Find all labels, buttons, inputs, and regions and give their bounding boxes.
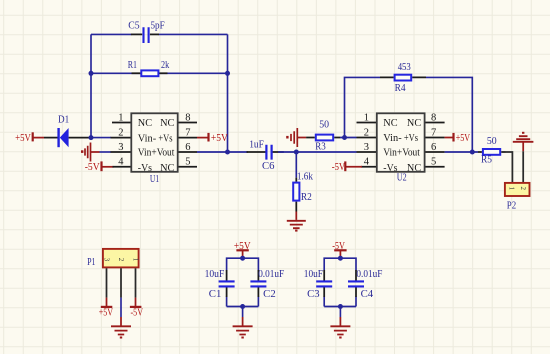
wire P2 pin2 — [522, 151, 524, 182]
svg-text:P1: P1 — [87, 257, 95, 268]
wire R4 right down to pin6 — [426, 77, 472, 152]
resistor R1 — [128, 60, 170, 76]
svg-text:5: 5 — [185, 156, 190, 167]
svg-text:5pF: 5pF — [151, 21, 165, 32]
svg-text:Vin-: Vin- — [383, 132, 402, 144]
svg-text:C6: C6 — [262, 161, 275, 172]
svg-text:C2: C2 — [263, 289, 276, 300]
power +5V under P1 — [99, 298, 114, 319]
svg-text:NC: NC — [160, 162, 174, 174]
svg-text:R1: R1 — [128, 60, 137, 71]
wire R3 to U2 pin2 — [340, 137, 357, 139]
svg-text:453: 453 — [398, 62, 411, 73]
svg-text:1: 1 — [131, 258, 139, 262]
ground at U1 pin3 — [81, 143, 100, 162]
node C3C4 top — [338, 256, 343, 261]
resistor R5 — [478, 136, 506, 165]
capacitor C2 — [250, 269, 284, 300]
op-amp U2 — [357, 113, 445, 184]
wire C3C4 top rail — [324, 258, 356, 306]
svg-text:C3: C3 — [307, 289, 320, 300]
svg-text:6: 6 — [185, 142, 190, 153]
wire P1 pin2 to ground — [120, 298, 122, 317]
resistor R3 — [306, 120, 340, 153]
node D1 / U1 pin2 — [89, 135, 94, 140]
svg-text:Vin+Vout: Vin+Vout — [138, 147, 175, 159]
svg-text:0.01uF: 0.01uF — [356, 269, 382, 280]
svg-text:Vin+Vout: Vin+Vout — [383, 147, 420, 159]
ground at R3 left — [286, 128, 306, 147]
svg-text:50: 50 — [487, 136, 497, 147]
wire U2 pin6 to R5 — [445, 151, 478, 153]
svg-text:NC: NC — [407, 162, 421, 174]
diode D1 — [44, 115, 91, 148]
svg-text:2k: 2k — [161, 60, 170, 71]
wire C1C2 ground stem — [242, 307, 244, 318]
capacitor C3 — [304, 269, 332, 300]
svg-text:4: 4 — [118, 156, 124, 167]
wire C3C4 ground stem — [339, 307, 341, 318]
op-amp U1 — [111, 113, 198, 185]
node C3C4 bottom — [338, 304, 343, 309]
node C1C2 top — [240, 256, 245, 261]
wire C3C4 bottom rail — [324, 306, 356, 308]
power -5V left — [85, 161, 114, 172]
node R1 right — [225, 71, 230, 76]
svg-text:1: 1 — [364, 113, 369, 124]
svg-text:50: 50 — [319, 120, 329, 131]
node R4 bottom — [342, 135, 347, 140]
svg-text:-Vs: -Vs — [383, 162, 397, 174]
svg-text:6: 6 — [431, 142, 436, 153]
wire C6 to U2 pin3 — [278, 151, 356, 153]
svg-text:2: 2 — [117, 258, 125, 262]
svg-text:-5V: -5V — [85, 162, 100, 173]
wire U1 pin6 to C6 — [197, 151, 248, 153]
svg-text:+5V: +5V — [15, 133, 31, 144]
wire left rail — [90, 34, 92, 137]
power +5V above C1C2 — [234, 241, 251, 258]
svg-text:+5V: +5V — [456, 133, 471, 144]
svg-text:1: 1 — [507, 187, 515, 191]
node R1 left — [89, 71, 94, 76]
ground below R2 — [287, 212, 306, 232]
capacitor C1 — [205, 269, 235, 300]
svg-text:U1: U1 — [150, 174, 159, 185]
node pin6/R4 rail — [470, 150, 475, 155]
svg-text:5: 5 — [431, 156, 436, 167]
svg-text:2: 2 — [519, 187, 527, 191]
svg-text:R3: R3 — [315, 142, 326, 153]
resistor R2 — [293, 172, 313, 212]
resistor R4 — [380, 62, 426, 94]
wire R2 branch — [295, 152, 297, 178]
power +5V at U2 pin7 — [445, 133, 471, 144]
svg-text:8: 8 — [431, 113, 436, 124]
capacitor C4 — [348, 269, 383, 300]
wire C1C2 top rail — [227, 258, 259, 306]
wire U1 pin3 — [100, 151, 112, 153]
svg-text:8: 8 — [185, 113, 190, 124]
svg-text:D1: D1 — [58, 115, 69, 126]
wire R5 to P2 pin1 — [506, 152, 513, 182]
svg-text:P2: P2 — [507, 200, 516, 211]
svg-text:3: 3 — [102, 258, 110, 262]
svg-text:1uF: 1uF — [249, 140, 264, 151]
svg-text:1: 1 — [118, 113, 123, 124]
power -5V at U2 pin4 — [332, 161, 362, 172]
svg-text:-5V: -5V — [131, 307, 144, 318]
svg-text:Vin-: Vin- — [138, 132, 157, 144]
wire R4 loop — [345, 77, 381, 137]
connector P1 — [87, 249, 139, 298]
connector P2 — [505, 183, 530, 212]
power -5V under P1 — [130, 298, 143, 319]
svg-text:C1: C1 — [209, 289, 222, 300]
svg-text:1.6k: 1.6k — [297, 172, 314, 183]
wire R1 feedback row — [91, 72, 228, 74]
svg-text:NC: NC — [160, 117, 174, 129]
svg-text:-Vs: -Vs — [138, 162, 152, 174]
svg-text:R4: R4 — [395, 83, 407, 94]
earth ground above P2 — [513, 132, 534, 152]
power -5V above C3C4 — [332, 241, 346, 258]
power +5V left — [15, 132, 44, 144]
svg-text:C4: C4 — [361, 289, 374, 300]
svg-text:U2: U2 — [397, 172, 407, 183]
svg-text:2: 2 — [364, 128, 369, 139]
svg-text:NC: NC — [383, 117, 397, 129]
capacitor C6 — [247, 140, 284, 172]
svg-text:R5: R5 — [481, 155, 492, 166]
svg-text:4: 4 — [364, 156, 370, 167]
svg-text:+Vs: +Vs — [158, 132, 172, 144]
ground under C3C4 — [330, 317, 350, 339]
svg-text:+Vs: +Vs — [404, 132, 418, 144]
capacitor C5 — [128, 21, 165, 43]
svg-text:7: 7 — [185, 128, 190, 139]
node R2 top — [294, 150, 299, 155]
svg-text:C5: C5 — [128, 21, 139, 32]
svg-text:2: 2 — [118, 128, 123, 139]
svg-text:7: 7 — [431, 128, 436, 139]
svg-text:R2: R2 — [301, 192, 312, 203]
power +5V at U1 pin7 — [197, 133, 228, 144]
svg-text:3: 3 — [118, 142, 123, 153]
svg-text:3: 3 — [364, 142, 369, 153]
svg-text:10uF: 10uF — [205, 269, 225, 280]
svg-text:10uF: 10uF — [304, 269, 323, 280]
ground under P1 — [111, 317, 131, 339]
wire right rail — [227, 34, 229, 152]
wire C1C2 bottom rail — [227, 306, 259, 308]
node C1C2 bottom — [240, 304, 245, 309]
svg-text:0.01uF: 0.01uF — [258, 269, 284, 280]
node pin6/right rail — [225, 150, 230, 155]
svg-text:+5V: +5V — [99, 307, 114, 318]
svg-text:+5V: +5V — [211, 133, 228, 144]
ground under C1C2 — [233, 317, 253, 339]
svg-text:-5V: -5V — [332, 162, 346, 173]
svg-text:NC: NC — [407, 117, 421, 129]
wire U1 pin2 — [91, 137, 111, 139]
svg-text:NC: NC — [138, 117, 152, 129]
wire C5 top feedback row — [91, 33, 228, 35]
